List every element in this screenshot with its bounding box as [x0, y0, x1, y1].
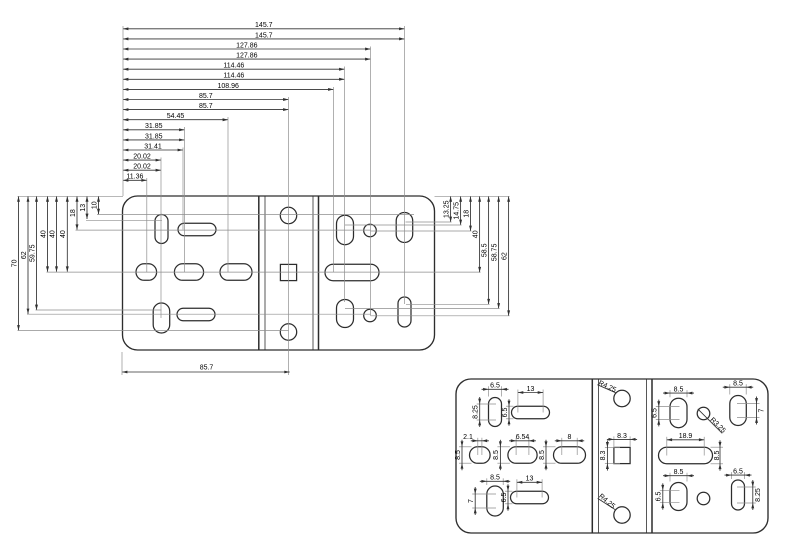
svg-text:114.46: 114.46	[223, 73, 244, 80]
svg-text:8.5: 8.5	[455, 450, 462, 460]
svg-text:31.85: 31.85	[145, 133, 163, 140]
svg-text:31.85: 31.85	[145, 123, 163, 130]
svg-text:40: 40	[472, 230, 479, 238]
detail dim 8.25 of slot O	[737, 486, 756, 488]
extension line to slots I/M	[344, 67, 346, 303]
dimension 40 (left stack)	[56, 196, 58, 271]
dimension 13.25 (right stack)	[450, 196, 452, 222]
main view bend line	[318, 196, 320, 350]
svg-text:8.5: 8.5	[733, 381, 743, 388]
detail radius leader R4.25 top circle	[597, 385, 616, 393]
extension line y=70	[18, 330, 289, 332]
dimension 40 (left stack)	[47, 196, 49, 271]
svg-text:58.5: 58.5	[481, 243, 488, 257]
main view plate outline	[123, 196, 435, 350]
dimension 145.7 (top stack)	[123, 28, 405, 30]
main view bend line	[312, 196, 314, 350]
svg-text:20.02: 20.02	[133, 154, 151, 161]
svg-text:127.86: 127.86	[236, 53, 258, 60]
detail view slot L (long horizontal slot)	[659, 447, 713, 464]
extension line to slot L	[333, 87, 335, 273]
svg-text:85.7: 85.7	[199, 93, 213, 100]
extension line to slot B	[182, 148, 184, 230]
main view slot L (long horizontal slot)	[325, 264, 379, 281]
detail view hole F (top circle, centre section)	[614, 390, 630, 406]
svg-text:8.5: 8.5	[493, 450, 500, 460]
svg-text:18: 18	[463, 210, 470, 218]
detail view plate outline	[456, 379, 768, 533]
detail dim 8.5 height of slot L	[711, 446, 724, 448]
svg-text:8.25: 8.25	[473, 405, 480, 419]
detail view bend line	[651, 379, 653, 533]
svg-text:54.45: 54.45	[167, 113, 185, 120]
detail dim 7 of slot K	[737, 403, 760, 405]
dimension 13 (left stack)	[86, 196, 88, 219]
svg-text:8.5: 8.5	[490, 475, 500, 482]
detail view hole J (small circle top, right sect.)	[697, 407, 710, 420]
dimension 58.5 (right stack)	[488, 196, 490, 304]
extension line y=59.75	[36, 309, 162, 311]
dimension 54.45 (top stack)	[123, 119, 228, 121]
extension line y=10	[97, 214, 414, 216]
svg-text:145.7: 145.7	[255, 32, 273, 39]
svg-text:7: 7	[468, 499, 475, 503]
main view slot B (horizontal slot top-left)	[178, 223, 216, 236]
svg-text:8.25: 8.25	[755, 488, 762, 502]
svg-text:58.75: 58.75	[491, 244, 498, 262]
extension line to slots A/D	[160, 158, 162, 319]
detail dim 8.5 width of slot M	[669, 473, 671, 482]
extension line to slots K/O	[404, 26, 406, 304]
svg-text:108.96: 108.96	[217, 83, 239, 90]
extension line y=40 (middle row)	[47, 271, 481, 273]
dimension 14.75 (right stack)	[460, 196, 462, 225]
detail view hole H (bottom circle, centre section)	[614, 507, 630, 523]
dimension 40 (left stack)	[66, 196, 68, 271]
svg-text:18: 18	[70, 209, 77, 217]
svg-text:6.54: 6.54	[516, 434, 530, 441]
detail view slot O (vertical capsule bottom-right)	[732, 480, 745, 510]
detail view square cutout G	[614, 447, 630, 463]
detail radius leader R3.25 small circle	[698, 409, 722, 433]
dimension 40 (right stack)	[479, 196, 481, 272]
svg-text:31.41: 31.41	[144, 143, 162, 150]
extension line to slot C3	[227, 117, 229, 272]
detail view slot B (horizontal slot top-left)	[512, 406, 550, 419]
detail radius leader R4.25 bottom circle	[598, 498, 616, 509]
detail view slot A (vertical capsule top-left)	[489, 398, 502, 427]
dimension 145.7 (top stack)	[123, 38, 405, 40]
svg-text:6.5: 6.5	[656, 492, 663, 502]
extension line y=62	[27, 313, 371, 315]
detail dim 8.3 width of square	[613, 436, 615, 446]
main view hole J (small circle top, right sect.)	[364, 224, 377, 237]
extension line y=58.75	[345, 308, 500, 310]
svg-text:11.36: 11.36	[126, 174, 143, 181]
detail view slot C1 (oval middle-left)	[470, 447, 491, 464]
main view slot K (vertical capsule top-right)	[396, 213, 413, 243]
svg-text:8.5: 8.5	[539, 450, 546, 460]
extension line y=18	[76, 229, 371, 231]
svg-text:62: 62	[21, 251, 28, 259]
detail view slot E (horizontal slot bottom-left)	[511, 491, 549, 504]
dimension 18 (right stack)	[470, 196, 472, 231]
main view slot C3 (oval middle-right)	[220, 264, 252, 281]
svg-text:70: 70	[11, 259, 18, 267]
svg-text:13: 13	[526, 476, 534, 483]
svg-text:10: 10	[91, 201, 98, 209]
dimension 18 (left stack)	[76, 196, 78, 230]
svg-text:145.7: 145.7	[255, 22, 273, 29]
svg-text:40: 40	[49, 230, 56, 238]
dimension 114.46 (top stack)	[123, 78, 345, 80]
svg-text:8.5: 8.5	[674, 469, 684, 476]
svg-text:8.3: 8.3	[617, 433, 627, 440]
dimension 20.02 (top stack)	[123, 169, 161, 171]
svg-text:2.1: 2.1	[463, 434, 473, 441]
detail dim 7 of slot D	[472, 493, 496, 495]
extension line y=14.75	[345, 224, 462, 226]
detail dim 6.5 height of slot E	[505, 490, 513, 492]
svg-text:85.7: 85.7	[200, 364, 214, 371]
top edge extension line	[18, 195, 124, 197]
detail dim 6.5 width of slot O	[731, 472, 733, 479]
dimension 108.96 (top stack)	[123, 88, 334, 90]
detail view slot C3 (oval middle-right)	[554, 447, 586, 464]
detail dim 8.5 width of slot K	[729, 384, 731, 394]
detail view slot M (vertical capsule, right sect.)	[670, 483, 687, 511]
detail dim 6.5 width of slot A	[488, 386, 490, 396]
dimension 10 (left stack)	[98, 196, 100, 214]
svg-text:8.5: 8.5	[714, 451, 721, 461]
detail dim 6.54 of slot C2	[515, 438, 517, 455]
svg-text:20.02: 20.02	[133, 164, 151, 171]
extension line bottom-left edge	[121, 352, 123, 375]
detail view bend line	[591, 379, 593, 533]
svg-text:59.75: 59.75	[29, 244, 36, 262]
detail dim 18.9 of slot L	[666, 437, 668, 456]
main view slot E (horizontal slot bottom-left)	[177, 308, 215, 321]
detail dim 2.1 of slot C1	[477, 438, 479, 455]
main view square cutout G	[280, 264, 296, 280]
main view slot D (vertical capsule bottom-left)	[153, 303, 170, 333]
extension line to slot C1	[146, 178, 148, 272]
dimension 20.02 (top stack)	[123, 159, 161, 161]
extension line to holes J/N	[370, 47, 372, 316]
main view slot M (vertical capsule, right sect.)	[337, 300, 354, 328]
centre line through F/G/H	[288, 97, 290, 375]
main view hole F (top circle, centre section)	[280, 207, 296, 223]
detail view slot I (vertical capsule, right sect.)	[670, 398, 687, 428]
extension line y=58.5	[406, 303, 490, 305]
svg-text:8.3: 8.3	[600, 451, 607, 461]
svg-text:40: 40	[60, 230, 67, 238]
svg-text:13: 13	[527, 386, 535, 393]
dimension 127.86 (top stack)	[123, 48, 371, 50]
dimension 11.36 (top stack)	[123, 179, 147, 181]
detail dim 8.5 width of slot D	[486, 478, 488, 485]
svg-text:8.5: 8.5	[674, 386, 684, 393]
detail view slot K (vertical capsule top-right)	[730, 396, 747, 426]
main view slot A (vertical capsule top-left)	[155, 215, 168, 244]
dimension 62 (left stack)	[27, 196, 29, 314]
top edge extension line (right)	[435, 195, 510, 197]
svg-text:127.86: 127.86	[236, 42, 258, 49]
svg-text:6.5: 6.5	[733, 469, 743, 476]
detail dim 8.5 height of slot C2	[497, 446, 510, 448]
dimension 31.85 (top stack)	[123, 139, 185, 141]
main view hole N (small circle bottom)	[364, 309, 377, 322]
dimension 85.7 (top stack)	[123, 109, 289, 111]
dimension 114.46 (top stack)	[123, 68, 345, 70]
extension line to slot C2	[184, 127, 186, 272]
svg-text:6.5: 6.5	[490, 383, 500, 390]
detail dim 8.25 of slot A	[477, 403, 496, 405]
extension line y=62 right	[371, 315, 510, 317]
dimension 31.85 (top stack)	[123, 129, 185, 131]
svg-text:6.5: 6.5	[501, 493, 508, 503]
detail view bend line	[646, 379, 648, 533]
svg-text:40: 40	[40, 230, 47, 238]
detail view slot C2 (oval middle)	[508, 447, 537, 464]
svg-text:13: 13	[80, 204, 87, 212]
detail dim 8 of slot C3	[561, 438, 563, 455]
svg-text:114.46: 114.46	[223, 63, 244, 70]
detail dim 8.5 height of slot C1	[459, 446, 472, 448]
main view slot O (vertical capsule bottom-right)	[398, 297, 411, 327]
svg-text:6.5: 6.5	[652, 408, 659, 418]
svg-text:6.5: 6.5	[502, 408, 509, 418]
detail view slot D (vertical capsule bottom-left)	[487, 486, 504, 516]
detail dim 6.5 of slot M	[660, 489, 680, 491]
svg-text:14.75: 14.75	[453, 202, 460, 220]
svg-text:18.9: 18.9	[679, 433, 693, 440]
svg-text:85.7: 85.7	[199, 103, 213, 110]
main view slot C1 (oval middle-left)	[136, 264, 157, 281]
detail dim 8.5 width of slot I	[669, 390, 671, 397]
dimension 59.75 (left stack)	[36, 196, 38, 310]
main view slot I (vertical capsule, right sect.)	[337, 215, 354, 245]
svg-text:7: 7	[759, 408, 766, 412]
dimension 62 (right stack)	[508, 196, 510, 315]
svg-text:13.25: 13.25	[443, 200, 450, 218]
main view bend line	[264, 196, 266, 350]
detail view hole N (small circle bottom)	[697, 492, 710, 505]
svg-text:62: 62	[501, 252, 508, 260]
svg-text:8: 8	[568, 434, 572, 441]
main view slot C2 (oval middle)	[174, 264, 203, 281]
extension line y=13	[86, 219, 162, 221]
extension line y=18 right	[371, 230, 472, 232]
main view hole H (bottom circle, centre section)	[280, 324, 296, 340]
detail dim 8.3 height of square	[605, 446, 620, 448]
dimension 127.86 (top stack)	[123, 58, 371, 60]
dimension 70 (left stack)	[18, 196, 20, 330]
detail view bend line	[598, 379, 600, 533]
detail dim 6.5 of slot I	[656, 406, 680, 408]
dimension 85.7 (bottom)	[122, 371, 290, 373]
main view bend line	[258, 196, 260, 350]
dimension 31.41 (top stack)	[123, 149, 183, 151]
detail dim 13 length of slot E	[516, 479, 518, 497]
dimension 58.75 (right stack)	[498, 196, 500, 308]
datum extension line (left edge)	[122, 26, 124, 196]
detail dim 8.5 height of slot C3	[543, 446, 556, 448]
dimension 85.7 (top stack)	[123, 99, 289, 101]
detail dim 13 length of slot B	[517, 390, 519, 413]
extension line y=13.25	[406, 221, 452, 223]
detail dim 6.5 height of slot B	[506, 405, 514, 407]
